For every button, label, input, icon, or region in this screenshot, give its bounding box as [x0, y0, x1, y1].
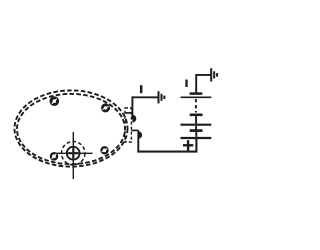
battery dashed link (omitted cells)	[195, 99, 197, 113]
battery link stem	[195, 116, 197, 124]
battery plate line3 (long, positive terminal)	[181, 137, 212, 139]
label + (battery positive)	[183, 140, 193, 150]
terminal T1 stub	[125, 112, 132, 114]
terminal T1 (top) bump	[132, 115, 136, 123]
screw S1	[51, 98, 58, 105]
battery plate bar2 (short thick)	[190, 114, 203, 117]
battery B1 plate bar1 (short thick, negative)	[190, 92, 203, 95]
terminal T2 stub	[131, 129, 138, 131]
label I (left current)	[140, 85, 143, 93]
shaft crosshair: vertical centerline	[72, 132, 74, 179]
shaft outer dashed circle	[61, 142, 84, 165]
housing outer dashed ellipse	[15, 90, 128, 166]
shaft hub circle	[67, 147, 80, 160]
battery link stem	[195, 132, 197, 137]
battery plate line2 (long)	[181, 124, 212, 126]
shaft crosshair: horizontal centerline	[56, 152, 92, 154]
screw S4	[102, 147, 108, 153]
terminal T2 (bottom) bump	[138, 131, 142, 139]
label I (battery current)	[185, 80, 187, 88]
battery plate line1 (long thin, positive)	[181, 96, 212, 98]
wire T1 up	[131, 96, 133, 119]
screw S2	[102, 105, 108, 111]
ground G1	[159, 91, 165, 103]
wire battery bottom	[137, 139, 196, 152]
terminal strip (dashed rectangle)	[125, 108, 131, 142]
battery plate bar3 (short thick)	[190, 129, 203, 132]
wire T2 down	[137, 130, 139, 151]
housing inner dashed ellipse	[17, 94, 125, 164]
battery link stem	[195, 126, 197, 130]
wire to ground G1	[132, 96, 159, 98]
screw S3	[51, 153, 57, 159]
ground G2	[211, 68, 217, 81]
wire battery top to ground G2	[196, 75, 210, 93]
shaft hub plus	[68, 148, 78, 158]
